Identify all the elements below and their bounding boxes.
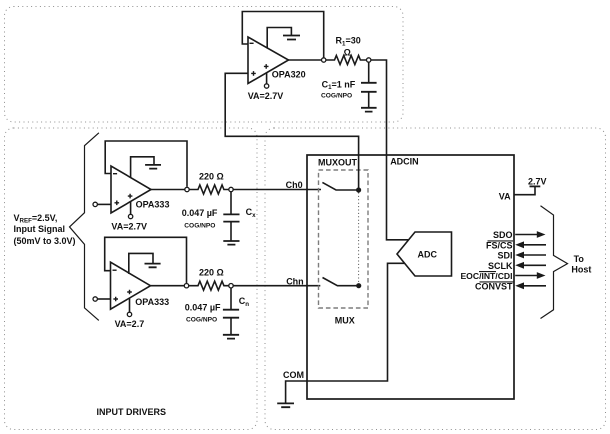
svg-text:220 Ω: 220 Ω [199,268,224,278]
wire: U3 V- pin to ground [129,253,153,274]
switch S2 (Chn) [323,278,359,286]
svg-text:OPA320: OPA320 [272,70,306,80]
svg-text:VA=2.7V: VA=2.7V [111,222,147,232]
svg-text:ADC: ADC [418,249,438,259]
supply pin VA of U1 [266,73,268,84]
ground: OPA320 [283,36,300,40]
wire: U2 feedback loop [105,141,187,187]
wire: ADCIN net (R1/C1 node to ADC plus input) [371,60,408,240]
wire: MUXOUT net (switch common to U1 plus input) [225,73,358,190]
svg-text:CONVST: CONVST [475,281,513,291]
dashed box: reference driver section [5,7,404,123]
resistor R2 220 Ohm [189,185,229,194]
wire: Ch0 net [233,189,321,191]
supply pin VA of ADC [514,186,535,194]
node: R1/C1 junction [367,58,371,62]
ground: U2 [145,165,161,169]
capacitor Cn [230,288,232,310]
svg-text:2.7V: 2.7V [528,177,547,187]
svg-text:(50mV to 3.0V): (50mV to 3.0V) [14,236,76,246]
svg-text:VA=2.7: VA=2.7 [115,319,145,329]
resistor R1 [326,56,367,65]
svg-text:To: To [574,254,585,264]
ground: COM [277,403,294,407]
svg-text:Input Signal: Input Signal [14,224,66,234]
capacitor C1 [368,62,370,82]
svg-text:FS/CS: FS/CS [486,240,513,250]
svg-text:0.047 µF: 0.047 µF [185,303,221,313]
op-amp U2 OPA333 [111,166,151,213]
svg-text:SCLK: SCLK [488,261,513,271]
wire: U2 V- pin to ground [131,157,154,178]
dashed box: ADC section [265,128,606,430]
capacitor Cx [230,192,232,215]
svg-text:COM: COM [283,370,304,380]
node: R3/Cn junction [229,284,233,288]
svg-text:COG/NPO: COG/NPO [321,92,352,99]
supply pin VA of U3 [129,298,131,312]
input terminal (Ch0 driver) [93,202,97,206]
ground: C1 [361,108,377,112]
ground: Cx [223,241,239,245]
svg-text:Ch0: Ch0 [286,180,303,190]
wire: input to U2 [97,203,111,205]
svg-text:COG/NPO: COG/NPO [186,317,217,324]
switch S1 (Ch0) [322,182,358,190]
svg-text:220 Ω: 220 Ω [199,172,224,182]
svg-text:0.047 µF: 0.047 µF [182,208,218,218]
svg-text:MUX: MUX [335,316,355,326]
node: U2 output [151,189,185,191]
resistor R3 220 Ohm [189,281,229,290]
supply pin VA of U2 [130,201,132,214]
svg-text:Host: Host [571,265,591,275]
svg-text:SDI: SDI [497,251,512,261]
wire: OPA320 feedback loop [242,12,323,58]
dotted line: mux common connection [358,193,360,284]
op-amp U1 OPA320 [248,37,289,84]
svg-text:COG/NPO: COG/NPO [184,222,215,229]
brace: to host [541,206,568,319]
svg-text:SDO: SDO [493,230,513,240]
svg-text:VA=2.7V: VA=2.7V [248,91,284,101]
svg-text:MUXOUT: MUXOUT [318,157,357,167]
ADC core symbol [397,232,452,276]
op-amp U3 OPA333 [111,262,151,309]
wire: Chn net [233,285,320,287]
svg-text:Ω: Ω [344,48,351,58]
svg-text:Chn: Chn [286,276,304,286]
dashed box: MUX [319,170,369,308]
svg-text:ADCIN: ADCIN [390,156,419,166]
input terminal (Chn driver) [93,297,97,301]
wire: OPA320 V- pin to ground [267,28,291,49]
brace: input signal [70,133,99,321]
ADC chip outline [307,155,514,399]
svg-text:VA: VA [499,191,511,201]
dashed box: input drivers section [5,128,258,430]
svg-text:OPA333: OPA333 [136,200,170,210]
svg-text:EOC/INT/CDI: EOC/INT/CDI [460,271,512,281]
ground: Cn [223,335,239,339]
wire: ADC minus input to COM and ground [286,263,405,403]
node: R2/Cx junction [229,187,233,191]
wire: U3 feedback loop [105,237,187,283]
svg-text:INPUT DRIVERS: INPUT DRIVERS [97,407,167,417]
ground: U3 [145,264,161,268]
svg-text:OPA333: OPA333 [135,297,169,307]
node: U3 output [151,285,185,287]
node: OPA320 output [289,59,322,61]
wire: input to U3 [97,298,110,300]
